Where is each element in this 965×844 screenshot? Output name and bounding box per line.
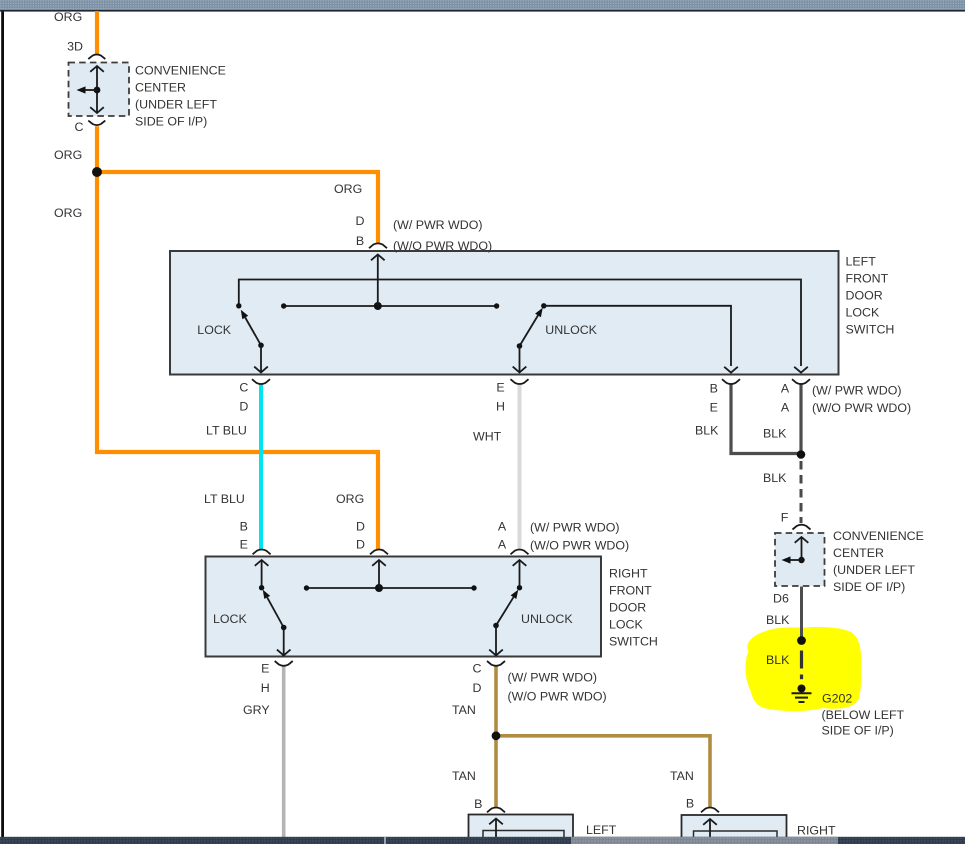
U1 internal left arrow [77, 86, 98, 93]
label U2 CONVENIENCE CENTER [833, 529, 924, 594]
S2 center up arrow to pin D/D [372, 560, 386, 588]
connector pin A/A arc (bottom of S1) [792, 379, 810, 384]
svg-text:A: A [498, 520, 507, 534]
S2 A/A pin up arrow to UNLOCK contact [513, 560, 527, 586]
U1 internal node dot [94, 87, 101, 94]
svg-text:ORG: ORG [54, 10, 82, 24]
svg-text:LEFT: LEFT [846, 255, 877, 269]
splice: TAN junction dot [492, 731, 501, 740]
S1 UNLOCK upper contact dot [541, 303, 546, 308]
bottom scrollbar thumb [571, 837, 838, 844]
HIGHLIGHT [746, 627, 862, 711]
bottom scrollbar track [0, 837, 965, 844]
U2 internal node dot [798, 557, 804, 563]
S2 middle rail wire [307, 587, 475, 589]
S1 middle rail left end dot [281, 303, 286, 308]
S1 center up arrow to pin D/B [371, 255, 385, 307]
S1 A/A pin down arrowhead [794, 367, 808, 373]
svg-text:B: B [474, 797, 482, 811]
svg-text:BLK: BLK [766, 653, 790, 667]
U1 internal double-headed arrow [90, 66, 104, 113]
connector pin B/E arc (bottom of S1) [722, 379, 740, 384]
svg-text:(W/ PWR WDO): (W/ PWR WDO) [812, 384, 901, 398]
svg-text:ORG: ORG [334, 182, 362, 196]
svg-text:SIDE OF I/P): SIDE OF I/P) [135, 115, 207, 129]
U2 internal up arrow [795, 537, 809, 560]
svg-text:BLK: BLK [763, 471, 787, 485]
svg-text:D: D [239, 400, 248, 414]
connector U1 CONVENIENCE CENTER upper (dashed box) [69, 63, 130, 117]
connector pin D/D arc (top of S2) [370, 550, 388, 555]
wire BLK from left switch B/E down and right to junction [731, 384, 799, 454]
svg-text:B: B [710, 382, 718, 396]
connector pin B arc (above M2) [701, 808, 719, 813]
svg-text:SWITCH: SWITCH [609, 635, 658, 649]
wire WHT from left switch E/H to right switch A/A [518, 384, 522, 550]
S2 B/E pin up arrow to LOCK contact [255, 560, 269, 586]
BOTTOM CHROME [0, 837, 965, 844]
connector pin B/E arc (top of S2) [253, 550, 271, 555]
svg-text:FRONT: FRONT [609, 584, 652, 598]
actuator M1 LEFT door lock actuator (box) [469, 815, 574, 839]
label S2 RIGHT FRONT DOOR LOCK SWITCH [609, 567, 658, 649]
svg-text:G202: G202 [822, 692, 852, 706]
label U1 CONVENIENCE CENTER [135, 64, 226, 129]
bottom bar separator [384, 837, 386, 844]
wire BLK from left switch A/A down to junction [799, 384, 802, 451]
svg-text:D: D [356, 214, 365, 228]
svg-text:B: B [356, 234, 364, 248]
svg-text:(W/O PWR WDO): (W/O PWR WDO) [393, 239, 492, 253]
svg-text:RIGHT: RIGHT [609, 567, 648, 581]
S2 middle rail left end dot [304, 585, 309, 590]
svg-text:H: H [261, 681, 270, 695]
svg-text:(W/ PWR WDO): (W/ PWR WDO) [508, 671, 597, 685]
svg-text:D6: D6 [773, 592, 789, 606]
actuator M2 inner rectangle [694, 831, 778, 840]
svg-text:LOCK: LOCK [846, 306, 880, 320]
svg-text:A: A [498, 538, 507, 552]
svg-text:LT BLU: LT BLU [206, 424, 247, 438]
svg-text:D: D [356, 538, 365, 552]
connector pin C/D arc (bottom of S2) [487, 661, 505, 666]
svg-text:BLK: BLK [766, 613, 790, 627]
wire GRY from right switch E/H down to bottom [282, 666, 286, 837]
svg-text:UNLOCK: UNLOCK [545, 323, 597, 337]
svg-text:TAN: TAN [452, 703, 476, 717]
connector pin E/H arc (bottom of S2) [275, 661, 293, 666]
svg-text:(W/ PWR WDO): (W/ PWR WDO) [530, 521, 619, 535]
svg-text:ORG: ORG [54, 206, 82, 220]
svg-text:F: F [781, 511, 789, 525]
S1 middle rail wire [284, 305, 497, 307]
svg-text:SWITCH: SWITCH [846, 323, 895, 337]
svg-text:LOCK: LOCK [213, 612, 247, 626]
U2 internal left arrow [782, 556, 802, 563]
S1 wire from UNLOCK contact to pin B/E [544, 306, 738, 373]
svg-text:(BELOW LEFT: (BELOW LEFT [822, 708, 905, 722]
S2 UNLOCK upper contact dot [517, 585, 522, 590]
top window bar [0, 0, 965, 9]
wire ORG branch from splice S201 to D/B pin of left door lock switch [97, 172, 378, 243]
svg-text:RIGHT: RIGHT [797, 824, 836, 838]
S1 LOCK switch blade with arrowhead [241, 310, 261, 346]
svg-text:(W/ PWR WDO): (W/ PWR WDO) [393, 218, 482, 232]
svg-text:E: E [710, 401, 718, 415]
svg-text:LEFT: LEFT [586, 823, 617, 837]
switch S2 RIGHT FRONT DOOR LOCK SWITCH (box) [206, 557, 602, 657]
S2 UNLOCK pivot down arrow to pin C/D [489, 626, 503, 656]
label S1 LEFT FRONT DOOR LOCK SWITCH [846, 255, 895, 337]
connector pin D/B arc (top of S1) [369, 243, 387, 248]
svg-text:WHT: WHT [473, 430, 502, 444]
connector pin B arc (above M1) [487, 808, 505, 813]
S1 LOCK upper contact dot [236, 303, 241, 308]
S1 LOCK pivot dot [258, 343, 264, 349]
svg-text:DOOR: DOOR [846, 289, 883, 303]
svg-text:D: D [473, 681, 482, 695]
splice: BLK junction dot [797, 450, 806, 459]
svg-text:E: E [240, 538, 248, 552]
left page border [1, 12, 4, 838]
connector pin C arc (bottom of U1) [88, 121, 105, 126]
svg-text:(W/O PWR WDO): (W/O PWR WDO) [530, 539, 629, 553]
svg-text:C: C [473, 662, 482, 676]
yellow marker highlight around G202 ground [746, 627, 862, 711]
svg-text:SIDE OF I/P): SIDE OF I/P) [833, 580, 905, 594]
svg-text:CONVENIENCE: CONVENIENCE [135, 64, 226, 78]
svg-text:DOOR: DOOR [609, 601, 646, 615]
S2 middle rail center junction dot [375, 584, 383, 592]
svg-text:3D: 3D [67, 40, 83, 54]
svg-text:TAN: TAN [452, 769, 476, 783]
connector pin E/H arc (bottom of S1) [511, 379, 529, 384]
svg-text:(UNDER LEFT: (UNDER LEFT [833, 563, 915, 577]
svg-text:C: C [239, 381, 248, 395]
svg-text:D: D [356, 520, 365, 534]
svg-text:(UNDER LEFT: (UNDER LEFT [135, 98, 217, 112]
S1 UNLOCK switch blade with arrowhead [520, 308, 543, 346]
actuator M1 inner rectangle [483, 831, 564, 840]
wire ORG from top of page into convenience center pin 3D [95, 11, 99, 54]
INK [77, 55, 812, 838]
S1 LOCK pivot down arrow to pin C/D [254, 345, 268, 372]
wire BLK from convenience center pin D6 down to splice [800, 587, 803, 637]
actuator M2 RIGHT door lock actuator (box) [682, 815, 787, 839]
S2 LOCK switch blade with arrowhead [263, 590, 284, 628]
svg-text:CONVENIENCE: CONVENIENCE [833, 529, 924, 543]
wire ORG from convenience center pin C down, right, down to D/B pin of left switch [97, 126, 378, 549]
svg-text:(W/O PWR WDO): (W/O PWR WDO) [508, 690, 607, 704]
wire BLK dashed from splice to ground G202 [800, 651, 803, 669]
S2 LOCK upper contact dot [259, 585, 264, 590]
svg-text:TAN: TAN [670, 769, 694, 783]
svg-text:ORG: ORG [54, 148, 82, 162]
S2 middle rail right end dot [471, 585, 476, 590]
svg-text:LOCK: LOCK [609, 618, 643, 632]
S2 UNLOCK switch blade with arrowhead [496, 590, 518, 626]
connector pin F arc (above U2) [793, 525, 811, 530]
wire TAN from splice down to LEFT actuator pin B [494, 736, 498, 807]
svg-text:C: C [75, 120, 84, 134]
svg-text:A: A [781, 382, 790, 396]
connector pin 3D arc (top of U1) [88, 55, 105, 60]
svg-text:ORG: ORG [336, 492, 364, 506]
switch S1 LEFT FRONT DOOR LOCK SWITCH (box) [170, 251, 839, 375]
S1 UNLOCK pivot dot [517, 343, 523, 349]
connector U2 CONVENIENCE CENTER lower (dashed box) [775, 533, 825, 586]
wire LT BLU from left switch C/D to right switch B/E [259, 384, 263, 550]
svg-text:GRY: GRY [243, 703, 270, 717]
svg-text:B: B [240, 520, 248, 534]
svg-text:H: H [496, 400, 505, 414]
splice: BLK junction dot in highlight [797, 636, 806, 645]
svg-text:E: E [496, 381, 504, 395]
svg-text:CENTER: CENTER [833, 546, 884, 560]
svg-text:FRONT: FRONT [846, 272, 889, 286]
svg-text:BLK: BLK [763, 427, 787, 441]
splice: ORG junction dot [92, 167, 102, 177]
S1 middle rail right end dot [494, 303, 499, 308]
svg-text:LT BLU: LT BLU [204, 492, 245, 506]
svg-text:LOCK: LOCK [197, 323, 231, 337]
wire TAN from splice right and down to RIGHT actuator pin B [498, 736, 710, 807]
svg-text:(W/O PWR WDO): (W/O PWR WDO) [812, 401, 911, 415]
S2 LOCK pivot down arrow to pin E/H [277, 628, 291, 656]
wire TAN from right switch C/D down to splice [494, 666, 498, 732]
BOXES [69, 63, 839, 841]
connector pin A/A arc (top of S2) [511, 550, 529, 555]
connector pin C/D arc (bottom of S1) [252, 379, 270, 384]
svg-text:CENTER: CENTER [135, 81, 186, 95]
svg-text:SIDE OF I/P): SIDE OF I/P) [822, 724, 894, 738]
S1 middle rail center junction dot [374, 302, 382, 310]
svg-text:A: A [781, 401, 790, 415]
S1 inner top rail wire [239, 280, 801, 367]
svg-text:UNLOCK: UNLOCK [521, 612, 573, 626]
S2 UNLOCK pivot dot [493, 623, 499, 629]
M2 internal up arrow [703, 819, 717, 837]
M1 internal up arrow [489, 819, 503, 838]
S2 LOCK pivot dot [281, 625, 287, 631]
S1 UNLOCK pivot down arrow to pin E/H [513, 346, 527, 372]
svg-text:B: B [686, 797, 694, 811]
svg-text:E: E [261, 662, 269, 676]
svg-text:BLK: BLK [695, 424, 719, 438]
wire BLK dashed from junction to convenience center pin F [800, 461, 803, 523]
ground G202 symbol [792, 685, 812, 703]
